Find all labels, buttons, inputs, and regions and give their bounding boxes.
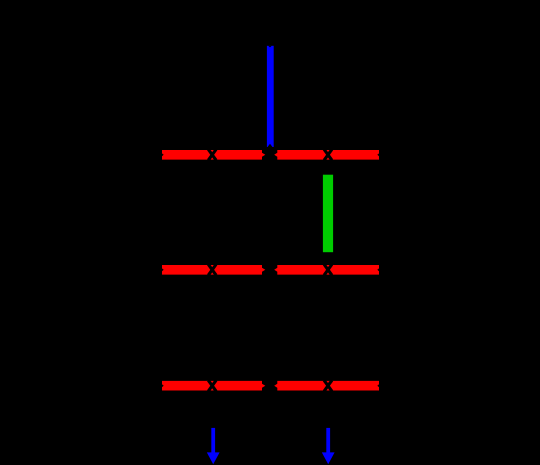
blue arrow left (below row 3): [207, 428, 220, 464]
blue vertical line (top, into row 1 centre): [267, 46, 274, 147]
blue arrow right (below row 3): [322, 428, 335, 464]
crossover X row 2 left: [208, 264, 216, 275]
crossover X row 3 left: [208, 380, 216, 391]
crossover X row 1 right: [324, 149, 332, 160]
red bar row 2 right segment: [274, 265, 379, 275]
row 1 end notches: [162, 153, 379, 156]
red bar row 1 left segment: [162, 150, 265, 160]
red bar row 3 left segment: [162, 381, 265, 391]
row 2 end notches: [162, 268, 379, 271]
red bar row 3 right segment: [274, 381, 379, 391]
green vertical bar (between row 1 and row 2): [323, 175, 333, 253]
row 3 end notches: [162, 384, 379, 387]
red bar row 2 left segment: [162, 265, 265, 275]
red bar row 1 right segment: [274, 150, 379, 160]
crossover X row 3 right: [324, 380, 332, 391]
crossover X row 2 right: [324, 264, 332, 275]
crossover X row 1 left: [208, 149, 216, 160]
